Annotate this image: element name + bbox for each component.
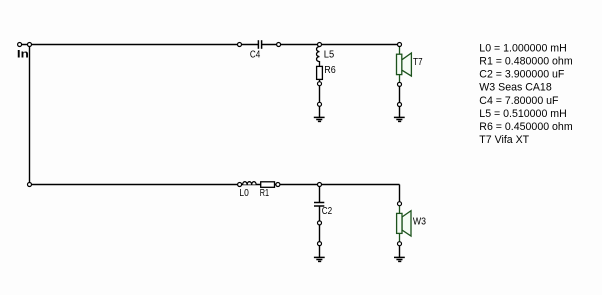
pin: C4 left terminal — [238, 43, 242, 47]
wire: left vertical rail (In down to bottom rail) — [29, 45, 31, 185]
svg-text:L0 = 1.000000 mH: L0 = 1.000000 mH — [479, 42, 566, 54]
inductor L0 — [243, 182, 257, 185]
pin: ground terminal (R6 branch) — [318, 102, 322, 106]
svg-text:W3 Seas CA18: W3 Seas CA18 — [479, 82, 552, 94]
wire: top rail right segment (C4 right plate to T7) — [262, 44, 400, 46]
pin: ground terminal (T7 branch) — [398, 103, 402, 107]
pin: W3 top terminal — [398, 202, 402, 206]
svg-text:C4: C4 — [250, 49, 261, 60]
wire: top rail left segment (In to C4 left plate) — [20, 44, 258, 46]
pin: C2 bottom terminal — [318, 221, 322, 225]
node: top-left corner junction — [28, 43, 32, 47]
junction node: bottom rail / C2 branch — [318, 183, 322, 187]
wire: C2 bottom to ground chain — [319, 206, 321, 257]
pin: W3 bottom terminal — [398, 242, 402, 246]
wire: R6 bottom to ground chain — [319, 79, 321, 117]
svg-text:T7: T7 — [413, 57, 423, 68]
inductor L5 — [317, 47, 320, 67]
ground (T7 branch) — [394, 117, 405, 121]
pin: C4 right terminal — [277, 43, 281, 47]
speaker T7 cone — [402, 53, 412, 76]
node: bottom-left corner junction — [28, 183, 32, 187]
svg-text:In: In — [17, 49, 29, 61]
svg-text:W3: W3 — [413, 217, 426, 228]
svg-text:C2 = 3.900000 uF: C2 = 3.900000 uF — [479, 69, 565, 81]
pin: T7 top terminal — [398, 43, 402, 47]
speaker W3 body — [397, 213, 402, 233]
ground (R6 branch) — [314, 117, 325, 121]
pin: R1 right terminal — [276, 183, 280, 187]
pin: R6 bottom terminal — [318, 82, 322, 86]
wire: T7 bottom to ground chain — [399, 84, 401, 117]
wire: W3 drop from bottom rail corner — [399, 185, 401, 204]
svg-text:R1: R1 — [260, 188, 270, 199]
speaker T7 body — [397, 54, 402, 74]
ground (W3 branch) — [394, 257, 405, 261]
pin: ground terminal (C2 branch) — [318, 242, 322, 246]
capacitor C2 — [314, 203, 324, 207]
speaker W3 leads (green) — [399, 206, 401, 244]
capacitor C4 — [258, 40, 261, 49]
wire: W3 bottom to ground — [399, 244, 401, 258]
svg-text:L5: L5 — [324, 49, 335, 60]
svg-text:L5 = 0.510000 mH: L5 = 0.510000 mH — [479, 108, 566, 120]
svg-text:R6: R6 — [324, 65, 336, 76]
wire: C2 branch from bottom rail junction — [319, 185, 321, 203]
value list: component values text block — [479, 42, 573, 146]
svg-text:C4 = 7.80000 uF: C4 = 7.80000 uF — [479, 95, 559, 107]
svg-text:T7 Vifa XT: T7 Vifa XT — [479, 134, 529, 146]
wire: bottom rail — [30, 184, 400, 186]
pin: T7 bottom terminal — [398, 82, 402, 86]
svg-text:R1 = 0.480000 ohm: R1 = 0.480000 ohm — [479, 55, 573, 67]
svg-text:C2: C2 — [322, 206, 333, 217]
svg-text:L0: L0 — [239, 188, 249, 199]
resistor R1 — [261, 182, 275, 188]
junction node: top rail / L5 branch — [318, 43, 322, 47]
svg-text:R6 = 0.450000 ohm: R6 = 0.450000 ohm — [479, 121, 573, 133]
resistor R6 — [317, 66, 323, 79]
pin: L0 left terminal — [238, 183, 242, 187]
input terminal In (outer pin) — [18, 43, 22, 47]
speaker W3 cone — [402, 211, 411, 236]
ground (C2 branch) — [314, 257, 325, 261]
speaker T7 leads (green) — [399, 47, 401, 85]
